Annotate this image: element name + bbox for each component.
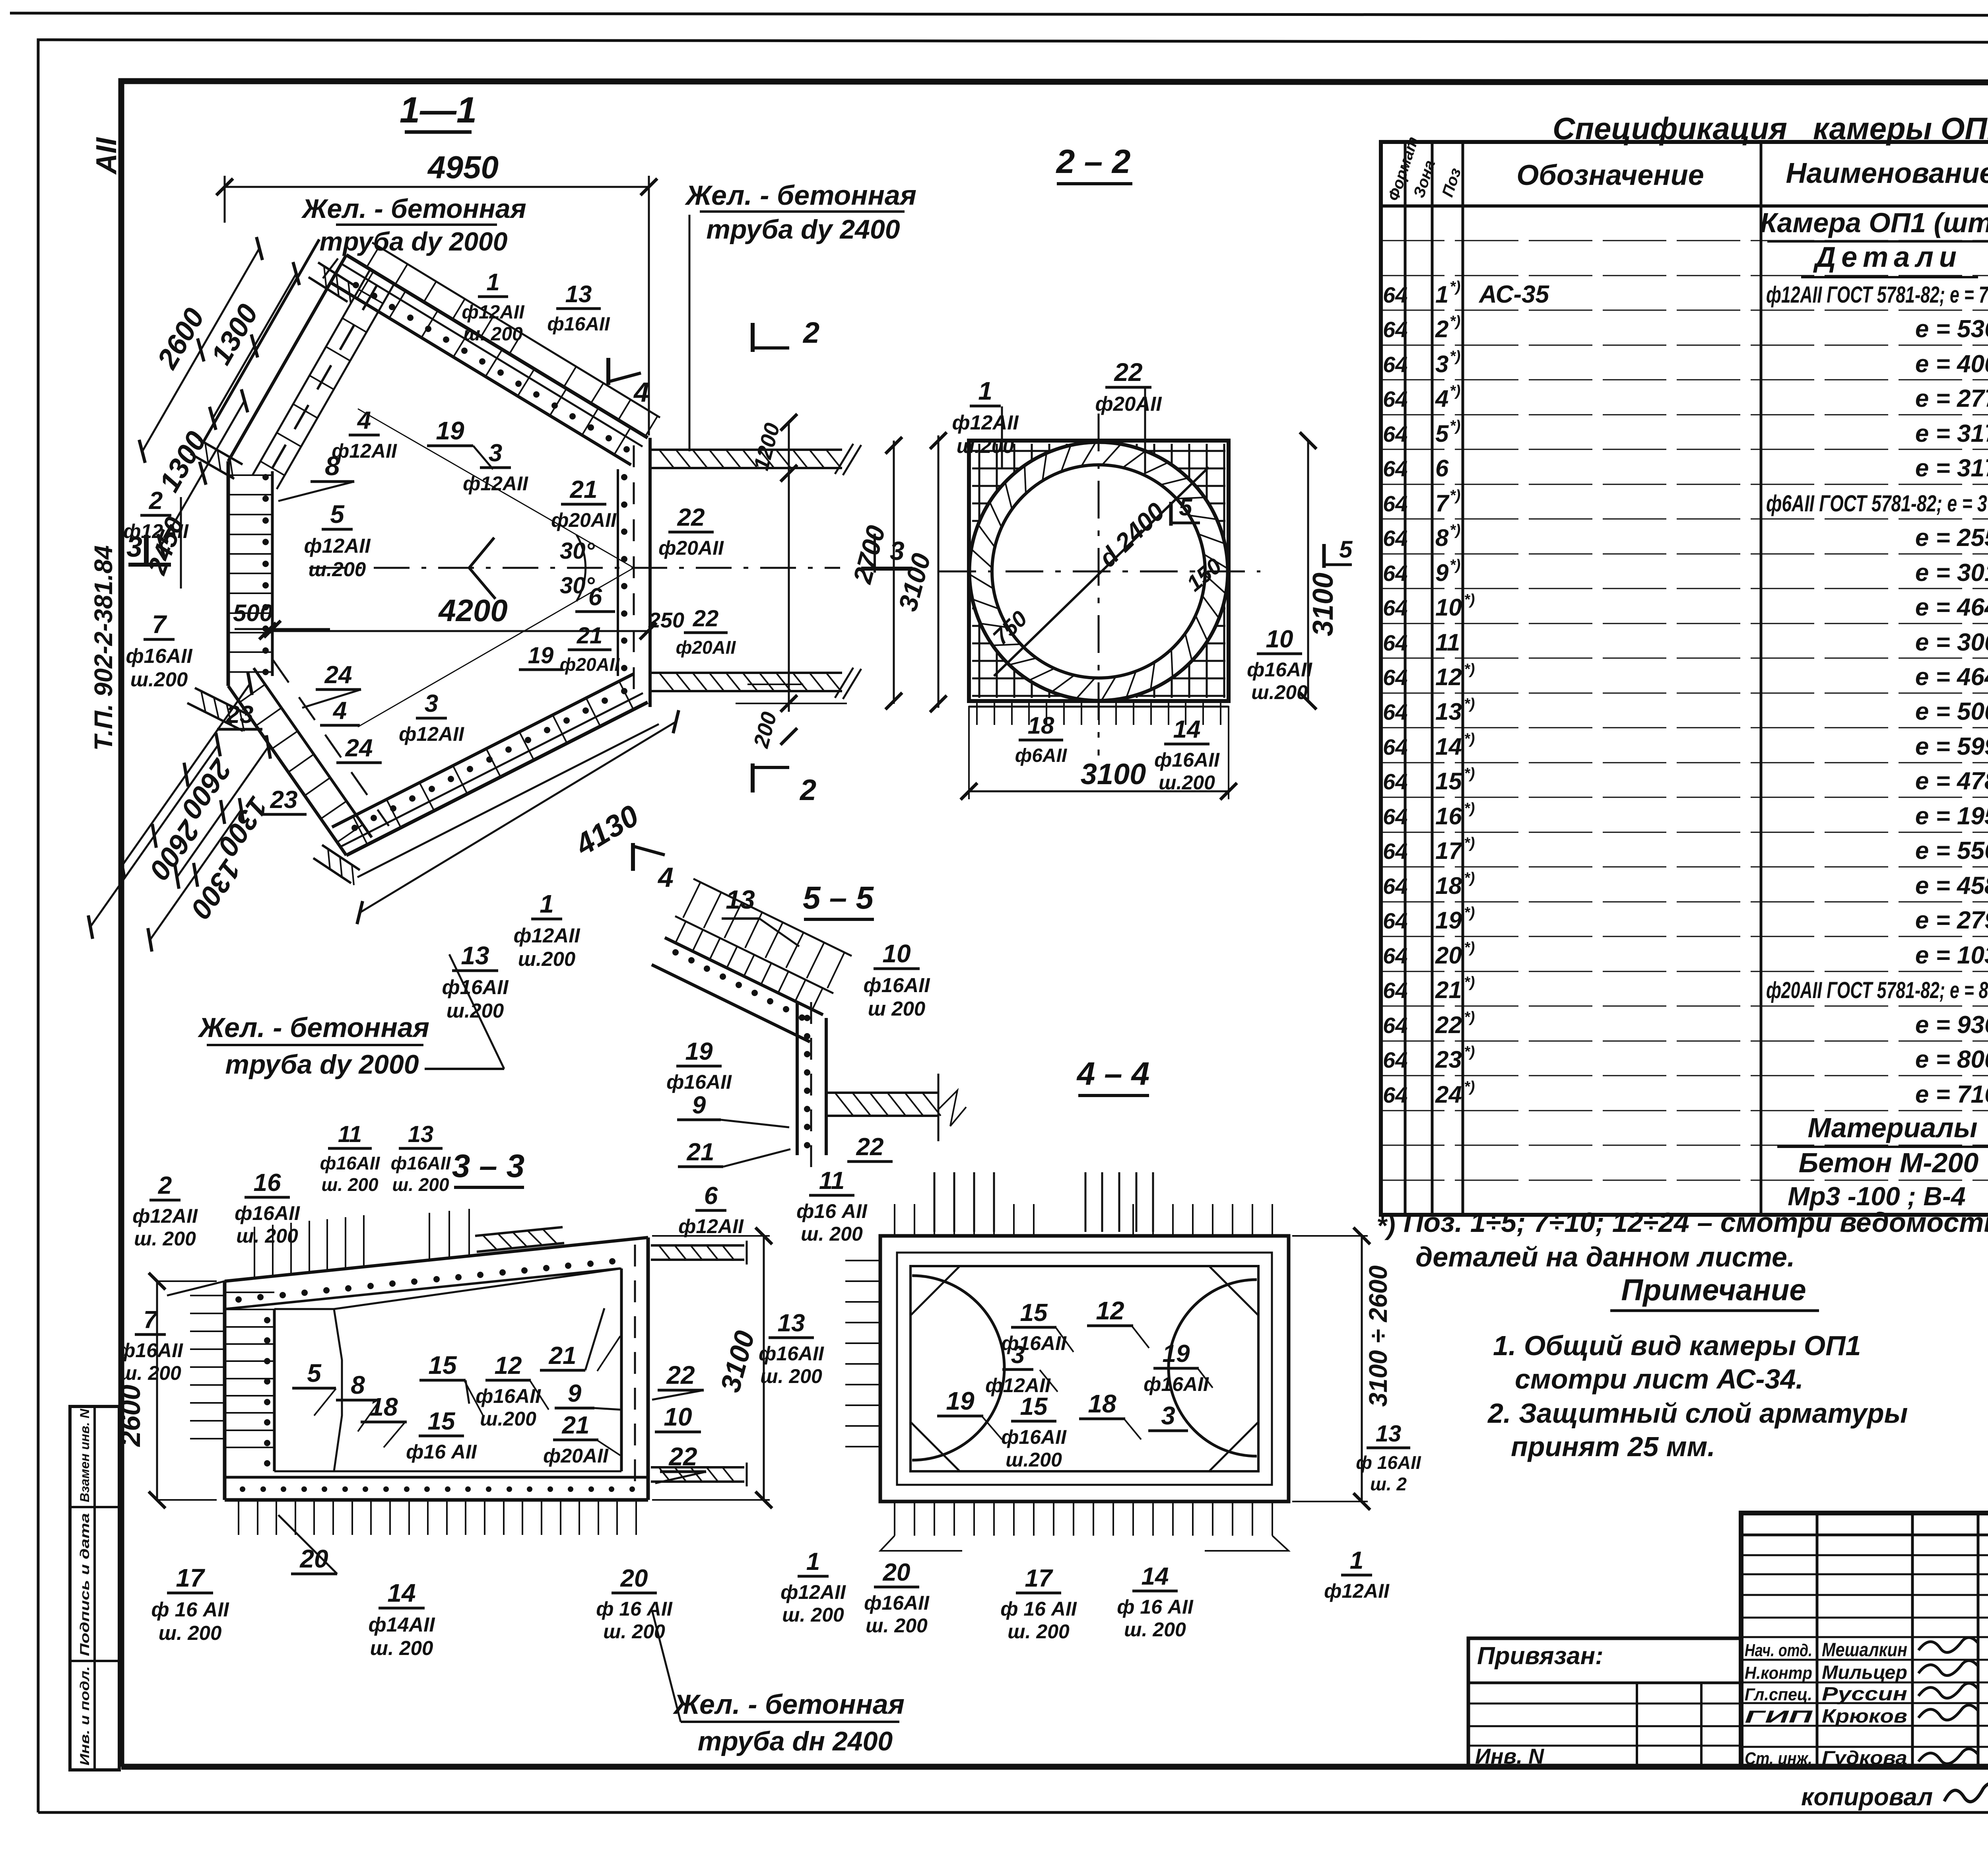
svg-text:17: 17	[1025, 1565, 1053, 1592]
svg-text:19: 19	[1435, 907, 1462, 934]
svg-text:7: 7	[1435, 490, 1450, 517]
svg-text:ш. 200: ш. 200	[236, 1225, 298, 1247]
svg-text:*): *)	[1450, 313, 1460, 330]
title block	[1741, 1513, 1988, 1767]
svg-text:3: 3	[1435, 351, 1448, 377]
svg-text:13: 13	[565, 281, 592, 307]
svg-text:17: 17	[1435, 837, 1463, 864]
dim 4130	[360, 722, 676, 913]
svg-text:12: 12	[1096, 1296, 1124, 1325]
right wall of chamber	[648, 438, 652, 707]
svg-text:ф 16 АII: ф 16 АII	[1117, 1596, 1194, 1618]
svg-text:ф16АII: ф16АII	[1143, 1373, 1209, 1395]
svg-text:Материалы: Материалы	[1808, 1112, 1978, 1143]
svg-text:2: 2	[802, 316, 819, 349]
svg-text:*): *)	[1464, 835, 1475, 851]
svg-text:5: 5	[330, 500, 345, 528]
wall band W2 upper-left slope	[228, 255, 346, 461]
dims between 1-1 and 2-2	[788, 421, 790, 712]
2-2 pipe ring	[969, 442, 1228, 701]
svg-text:14: 14	[1173, 716, 1201, 743]
svg-text:e = 2550: e = 2550	[1915, 524, 1988, 552]
svg-text:*): *)	[1464, 695, 1475, 712]
dim 2450	[180, 497, 182, 589]
left margin stamp	[70, 1406, 119, 1770]
svg-text:Жел. - бетонная: Жел. - бетонная	[673, 1689, 905, 1720]
svg-text:5 – 5: 5 – 5	[803, 880, 874, 915]
svg-text:15: 15	[1020, 1393, 1048, 1420]
svg-text:Т.П. 902-2-381.84: Т.П. 902-2-381.84	[89, 545, 118, 751]
3-3 inner cavity	[274, 1309, 342, 1471]
specification table grid	[1381, 142, 1988, 1215]
svg-text:труба dy 2000: труба dy 2000	[320, 227, 508, 256]
svg-text:1: 1	[806, 1548, 820, 1575]
svg-text:ш.200: ш.200	[480, 1408, 536, 1430]
svg-text:18: 18	[369, 1393, 398, 1421]
svg-text:ф16АII: ф16АII	[320, 1153, 381, 1173]
svg-text:труба dy 2000: труба dy 2000	[225, 1049, 419, 1080]
svg-text:13: 13	[1376, 1421, 1402, 1447]
svg-text:64: 64	[1383, 387, 1408, 412]
4-4 right arc	[1169, 1280, 1257, 1456]
svg-text:64: 64	[1383, 839, 1408, 864]
svg-text:ф14АII: ф14АII	[368, 1613, 435, 1636]
svg-text:21: 21	[562, 1412, 590, 1439]
5-5 corner vertical band	[796, 1002, 799, 1155]
svg-text:ф16АII: ф16АII	[126, 645, 193, 667]
svg-text:Подпись и дата: Подпись и дата	[78, 1513, 92, 1656]
dims 2600 1300 upper-left	[142, 249, 259, 451]
svg-text:Обозначение: Обозначение	[1516, 159, 1704, 191]
svg-text:4: 4	[1435, 385, 1448, 412]
svg-text:64: 64	[1383, 908, 1408, 933]
svg-text:e = 4640: e = 4640	[1915, 594, 1988, 621]
svg-text:4950: 4950	[427, 150, 499, 185]
4-4 outside combs	[845, 1260, 880, 1261]
svg-text:e = 7160: e = 7160	[1915, 1081, 1988, 1108]
svg-text:ф16АII: ф16АII	[118, 1339, 183, 1362]
wall band W1 upper-right slope	[346, 255, 648, 438]
5-5 bottom hatch slab	[826, 1092, 938, 1094]
svg-text:7: 7	[144, 1306, 158, 1334]
section flag 2 bottom	[751, 763, 755, 793]
svg-text:Гл.спец.: Гл.спец.	[1745, 1685, 1812, 1704]
svg-text:5: 5	[307, 1359, 322, 1387]
svg-text:ф12АII: ф12АII	[123, 520, 189, 542]
svg-text:5: 5	[1179, 494, 1193, 521]
svg-text:6: 6	[704, 1182, 718, 1210]
svg-text:e = 5990: e = 5990	[1915, 733, 1988, 760]
svg-text:e = 3010: e = 3010	[1915, 559, 1988, 587]
svg-text:ш. 200: ш. 200	[321, 1174, 379, 1195]
svg-text:21: 21	[687, 1138, 714, 1166]
svg-text:64: 64	[1383, 804, 1408, 829]
svg-text:ш. 2: ш. 2	[1370, 1474, 1407, 1494]
svg-text:ш.200: ш.200	[309, 558, 366, 581]
svg-text:e = 5000: e = 5000	[1915, 698, 1988, 725]
svg-text:ф12АII: ф12АII	[463, 472, 528, 495]
svg-text:Н.контр: Н.контр	[1745, 1663, 1812, 1683]
2-2 bottom comb	[976, 701, 978, 725]
svg-text:АII: АII	[91, 137, 122, 175]
svg-text:64: 64	[1383, 769, 1408, 794]
svg-text:13: 13	[726, 885, 755, 914]
svg-text:e = 2770: e = 2770	[1915, 385, 1988, 412]
svg-text:Мильцер: Мильцер	[1822, 1662, 1907, 1683]
svg-text:ф12АII: ф12АII	[952, 411, 1019, 434]
svg-text:64: 64	[1383, 317, 1408, 342]
svg-text:19: 19	[436, 416, 464, 445]
svg-text:64: 64	[1383, 1013, 1408, 1038]
svg-text:*): *)	[1450, 557, 1460, 573]
3-3 dims	[156, 1281, 158, 1500]
svg-text:6: 6	[588, 583, 602, 611]
svg-text:труба dy 2400: труба dy 2400	[706, 214, 900, 245]
dim 4950	[225, 186, 649, 188]
svg-text:16: 16	[1435, 803, 1462, 829]
svg-text:13: 13	[461, 941, 489, 970]
svg-text:13: 13	[1435, 698, 1462, 725]
svg-text:6: 6	[1435, 455, 1449, 482]
svg-text:20: 20	[620, 1565, 648, 1592]
svg-text:2: 2	[158, 1172, 172, 1199]
svg-text:*): *)	[1450, 522, 1460, 538]
svg-text:ф12АII: ф12АII	[304, 534, 371, 557]
svg-text:250: 250	[648, 608, 684, 632]
svg-text:*): *)	[1464, 765, 1475, 782]
svg-text:3: 3	[890, 536, 905, 565]
svg-text:4: 4	[657, 862, 674, 893]
svg-text:12: 12	[495, 1352, 522, 1379]
svg-text:АС-35: АС-35	[1478, 281, 1550, 308]
pipe dy2400 walls	[651, 449, 842, 451]
svg-text:ф16АII: ф16АII	[547, 314, 610, 335]
svg-text:3100 ÷ 2600: 3100 ÷ 2600	[1364, 1265, 1392, 1406]
svg-text:*): *)	[1450, 418, 1460, 434]
svg-text:Крюков: Крюков	[1822, 1706, 1907, 1727]
svg-text:ш.200: ш.200	[957, 435, 1014, 457]
svg-text:e = 4580: e = 4580	[1915, 872, 1988, 899]
svg-text:*): *)	[1464, 1043, 1475, 1060]
svg-text:20: 20	[1435, 942, 1462, 969]
svg-text:ф12АII ГОСТ 5781-82; e = 7250: ф12АII ГОСТ 5781-82; e = 7250	[1766, 282, 1988, 308]
svg-text:14: 14	[1435, 733, 1462, 760]
svg-text:64: 64	[1383, 491, 1408, 516]
svg-text:ф12АII: ф12АII	[1324, 1580, 1390, 1602]
svg-text:e = 1950: e = 1950	[1915, 802, 1988, 830]
svg-text:e = 4000: e = 4000	[1915, 350, 1988, 378]
svg-text:ш.200: ш.200	[1251, 681, 1308, 703]
svg-text:ш. 200: ш. 200	[866, 1614, 928, 1637]
2-2 mesh grid	[978, 444, 980, 698]
svg-text:10: 10	[882, 939, 911, 968]
svg-text:ф12АII: ф12АII	[678, 1215, 744, 1237]
svg-text:11: 11	[1435, 629, 1460, 656]
svg-text:3: 3	[425, 690, 438, 717]
svg-text:ф12АII: ф12АII	[399, 723, 464, 745]
svg-text:15: 15	[1435, 768, 1462, 794]
svg-text:труба dн 2400: труба dн 2400	[698, 1726, 893, 1756]
svg-text:Инв. и подл.: Инв. и подл.	[78, 1666, 92, 1766]
svg-text:e = 2790: e = 2790	[1915, 907, 1988, 934]
svg-text:*): *)	[1464, 661, 1475, 678]
svg-text:*): *)	[1464, 591, 1475, 608]
svg-text:4 – 4: 4 – 4	[1076, 1056, 1149, 1092]
svg-text:64: 64	[1383, 561, 1408, 586]
hatch patch at pipe2000 junction	[318, 262, 357, 287]
svg-text:64: 64	[1383, 456, 1408, 481]
scan edge top	[10, 13, 1988, 16]
svg-text:23: 23	[1435, 1046, 1462, 1073]
svg-text:ш. 200: ш. 200	[370, 1637, 433, 1659]
svg-text:Примечание: Примечание	[1621, 1273, 1806, 1307]
svg-text:ш. 200: ш. 200	[392, 1174, 449, 1195]
svg-text:1—1: 1—1	[400, 90, 477, 130]
svg-text:Руссин: Руссин	[1822, 1684, 1907, 1705]
svg-text:17: 17	[176, 1564, 206, 1592]
svg-text:копировал: копировал	[1801, 1783, 1933, 1811]
svg-text:24: 24	[1435, 1081, 1462, 1108]
svg-text:e = 3170: e = 3170	[1915, 420, 1988, 447]
svg-text:14: 14	[1142, 1563, 1169, 1590]
svg-text:ф20АII: ф20АII	[551, 509, 617, 531]
svg-text:2. Защитный слой арматуры: 2. Защитный слой арматуры	[1487, 1398, 1908, 1429]
3-3 right wall	[646, 1237, 650, 1500]
svg-text:9: 9	[692, 1092, 706, 1119]
svg-text:18: 18	[1088, 1389, 1116, 1418]
2-2 centerlines	[1098, 414, 1100, 756]
svg-text:19: 19	[685, 1038, 713, 1065]
svg-text:18: 18	[1028, 712, 1054, 739]
section flag 2 top	[751, 323, 755, 352]
svg-text:ш. 200: ш. 200	[1124, 1618, 1186, 1641]
svg-text:ш. 200: ш. 200	[159, 1622, 222, 1644]
svg-text:ф20АII: ф20АII	[1095, 392, 1162, 415]
svg-text:ф16 АII: ф16 АII	[406, 1441, 477, 1463]
svg-text:*): *)	[1450, 383, 1460, 399]
privyazan block	[1468, 1638, 1741, 1766]
svg-text:*): *)	[1464, 870, 1475, 886]
svg-text:20: 20	[883, 1559, 911, 1586]
svg-text:ф16АII: ф16АII	[759, 1342, 824, 1365]
svg-text:3 – 3: 3 – 3	[452, 1148, 524, 1184]
svg-text:ф16 АII: ф16 АII	[796, 1200, 868, 1222]
svg-text:Поз. 1÷5; 7÷10; 12÷24 – см: Поз. 1÷5; 7÷10; 12÷24 – смотри ведомость	[1404, 1207, 1988, 1238]
svg-text:1: 1	[1350, 1547, 1363, 1574]
svg-text:*): *)	[1464, 1009, 1475, 1026]
svg-text:22: 22	[666, 1361, 695, 1389]
svg-text:ф12АII: ф12АII	[132, 1205, 198, 1227]
svg-text:ш.200: ш.200	[518, 948, 576, 970]
svg-text:Жел. - бетонная: Жел. - бетонная	[198, 1012, 429, 1043]
svg-text:*): *)	[1464, 974, 1475, 991]
svg-text:ш.200: ш.200	[1006, 1449, 1062, 1471]
svg-text:4: 4	[633, 377, 649, 408]
svg-text:Жел. - бетонная: Жел. - бетонная	[685, 180, 916, 211]
svg-text:ф20АII: ф20АII	[658, 537, 724, 559]
svg-text:2: 2	[1435, 316, 1448, 342]
svg-text:21: 21	[570, 476, 598, 503]
svg-text:14: 14	[387, 1579, 415, 1607]
30 deg construction lines	[358, 409, 634, 568]
svg-text:ф16АII: ф16АII	[235, 1202, 300, 1224]
svg-text:15: 15	[428, 1408, 456, 1435]
svg-text:64: 64	[1383, 943, 1408, 968]
5-5 upper formwork comb	[693, 879, 852, 956]
section flag 4 upper	[606, 358, 610, 385]
svg-text:Привязан:: Привязан:	[1477, 1642, 1604, 1670]
svg-text:ф16АII: ф16АII	[1001, 1426, 1067, 1448]
section flag 3 near 2-2	[874, 534, 876, 573]
svg-text:e = 8000: e = 8000	[1915, 1046, 1988, 1073]
svg-text:смотри лист АС-34.: смотри лист АС-34.	[1515, 1364, 1804, 1395]
2-2 inner flags	[1169, 502, 1173, 526]
svg-text:64: 64	[1383, 630, 1408, 655]
3-3 top combs	[254, 1227, 255, 1278]
lower-left band W4	[228, 686, 346, 855]
svg-text:ш. 200: ш. 200	[760, 1365, 822, 1387]
svg-text:ф16АII: ф16АII	[391, 1153, 451, 1173]
svg-text:ш. 200: ш. 200	[1008, 1620, 1070, 1643]
3-3 top slab	[225, 1237, 648, 1281]
svg-text:2: 2	[799, 773, 816, 806]
svg-text:Детали: Детали	[1813, 241, 1962, 273]
chamber centerline	[309, 567, 840, 569]
svg-text:10: 10	[1266, 625, 1293, 653]
svg-text:1. Общий вид камеры ОП1: 1. Общий вид камеры ОП1	[1493, 1330, 1861, 1361]
svg-text:5: 5	[1339, 536, 1353, 563]
svg-text:*): *)	[1450, 278, 1460, 295]
svg-text:ф12АII: ф12АII	[513, 924, 580, 947]
svg-text:4: 4	[332, 697, 347, 725]
svg-text:22: 22	[1114, 358, 1142, 387]
svg-text:ф 16 АII: ф 16 АII	[596, 1598, 673, 1620]
svg-text:e = 1030: e = 1030	[1915, 942, 1988, 969]
svg-text:ф 16 АII: ф 16 АII	[1000, 1598, 1077, 1620]
svg-text:ф16АII: ф16АII	[442, 976, 509, 998]
svg-text:21: 21	[549, 1342, 577, 1369]
svg-text:24: 24	[324, 661, 352, 689]
svg-text:13: 13	[778, 1309, 805, 1337]
svg-text:ф6АII ГОСТ 5781-82; e = 3740: ф6АII ГОСТ 5781-82; e = 3740	[1766, 491, 1988, 517]
lower-right band W5	[346, 702, 648, 855]
svg-text:ф16АII: ф16АII	[863, 974, 930, 996]
svg-text:Бетон М-200: Бетон М-200	[1799, 1147, 1979, 1178]
svg-text:ш. 200: ш. 200	[782, 1604, 844, 1626]
svg-text:22: 22	[668, 1442, 697, 1471]
svg-text:23: 23	[270, 786, 298, 814]
svg-text:1: 1	[540, 890, 554, 918]
section flag 4 lower	[631, 843, 635, 871]
svg-text:e = 5560: e = 5560	[1915, 837, 1988, 864]
svg-text:ф16АII: ф16АII	[1247, 658, 1312, 681]
svg-text:ф20АII: ф20АII	[676, 637, 736, 658]
svg-text:12: 12	[1435, 664, 1462, 690]
svg-text:64: 64	[1383, 665, 1408, 690]
svg-text:15: 15	[1020, 1299, 1048, 1327]
svg-text:16: 16	[254, 1169, 281, 1197]
svg-text:e = 4780: e = 4780	[1915, 767, 1988, 795]
svg-text:500: 500	[233, 600, 273, 626]
svg-text:*): *)	[1450, 487, 1460, 504]
section flag 3 left	[144, 535, 149, 565]
svg-text:e = 3170: e = 3170	[1915, 455, 1988, 482]
svg-text:*): *)	[1450, 348, 1460, 365]
5-5 upper band	[665, 938, 823, 1015]
svg-text:2600: 2600	[115, 1385, 146, 1447]
svg-text:Камера ОП1 (шт1): Камера ОП1 (шт1)	[1760, 207, 1988, 238]
svg-text:22: 22	[693, 606, 719, 631]
svg-text:3: 3	[1011, 1341, 1025, 1369]
svg-text:Инв. N: Инв. N	[1475, 1744, 1544, 1768]
4-4 top rebar sticks	[934, 1172, 936, 1232]
svg-text:Жел. - бетонная: Жел. - бетонная	[301, 194, 526, 224]
svg-text:Взамен инв. N: Взамен инв. N	[78, 1408, 92, 1502]
svg-text:5: 5	[1435, 420, 1449, 447]
svg-text:18: 18	[1435, 872, 1462, 899]
svg-text:9: 9	[1435, 559, 1449, 586]
svg-text:Нач. отд.: Нач. отд.	[1745, 1641, 1812, 1660]
svg-text:ш. 200: ш. 200	[801, 1223, 863, 1245]
svg-text:2: 2	[149, 487, 163, 515]
svg-text:ф6АII: ф6АII	[1015, 745, 1068, 766]
svg-text:e = 4640: e = 4640	[1915, 663, 1988, 691]
svg-text:22: 22	[856, 1133, 884, 1161]
4-4 dims	[1361, 1236, 1363, 1501]
svg-text:*): *)	[1464, 904, 1475, 921]
svg-text:1: 1	[978, 377, 992, 405]
svg-text:64: 64	[1383, 874, 1408, 899]
dim 4200	[268, 630, 648, 632]
svg-text:64: 64	[1383, 1082, 1408, 1107]
svg-text:ш.200: ш.200	[130, 668, 188, 691]
svg-text:13: 13	[408, 1121, 434, 1147]
svg-text:4200: 4200	[438, 593, 508, 628]
svg-text:64: 64	[1383, 526, 1408, 551]
svg-text:ф16АII: ф16АII	[1154, 749, 1220, 771]
svg-text:7: 7	[152, 610, 167, 639]
4-4 left arc	[912, 1276, 1004, 1460]
svg-text:19: 19	[1163, 1340, 1190, 1367]
svg-text:ф20АII ГОСТ 5781-82; e = 8420: ф20АII ГОСТ 5781-82; e = 8420	[1766, 977, 1988, 1003]
svg-text:20: 20	[299, 1544, 328, 1573]
left wall W3 ladder	[227, 461, 230, 686]
3-3 inner leader lines	[314, 1389, 336, 1416]
svg-text:ф 16 АII: ф 16 АII	[151, 1598, 229, 1621]
svg-text:ш. 200: ш. 200	[119, 1362, 181, 1384]
svg-text:Мр3 -100 ; В-4: Мр3 -100 ; В-4	[1788, 1181, 1965, 1211]
svg-text:*): *)	[1464, 730, 1475, 747]
svg-text:1: 1	[1435, 281, 1448, 308]
svg-text:22: 22	[1435, 1012, 1462, 1038]
svg-text:*): *)	[1464, 939, 1475, 956]
svg-text:22: 22	[677, 504, 705, 531]
svg-text:Гудкова: Гудкова	[1822, 1748, 1907, 1769]
svg-text:11: 11	[819, 1167, 845, 1195]
4-4 corner chamfers	[911, 1266, 960, 1315]
svg-text:30°: 30°	[560, 538, 595, 564]
svg-text:ф12АII: ф12АII	[780, 1581, 846, 1603]
svg-text:9: 9	[568, 1380, 582, 1407]
3-3 bottom slab	[225, 1476, 648, 1479]
svg-text:64: 64	[1383, 422, 1408, 447]
svg-text:3100: 3100	[1081, 758, 1146, 791]
svg-text:ф20АII: ф20АII	[543, 1445, 609, 1467]
svg-text:ГИП: ГИП	[1745, 1707, 1813, 1727]
dims 2600 1300 lower-left	[122, 684, 250, 866]
svg-text:11: 11	[338, 1121, 362, 1147]
svg-text:ф12АII: ф12АII	[462, 302, 525, 323]
